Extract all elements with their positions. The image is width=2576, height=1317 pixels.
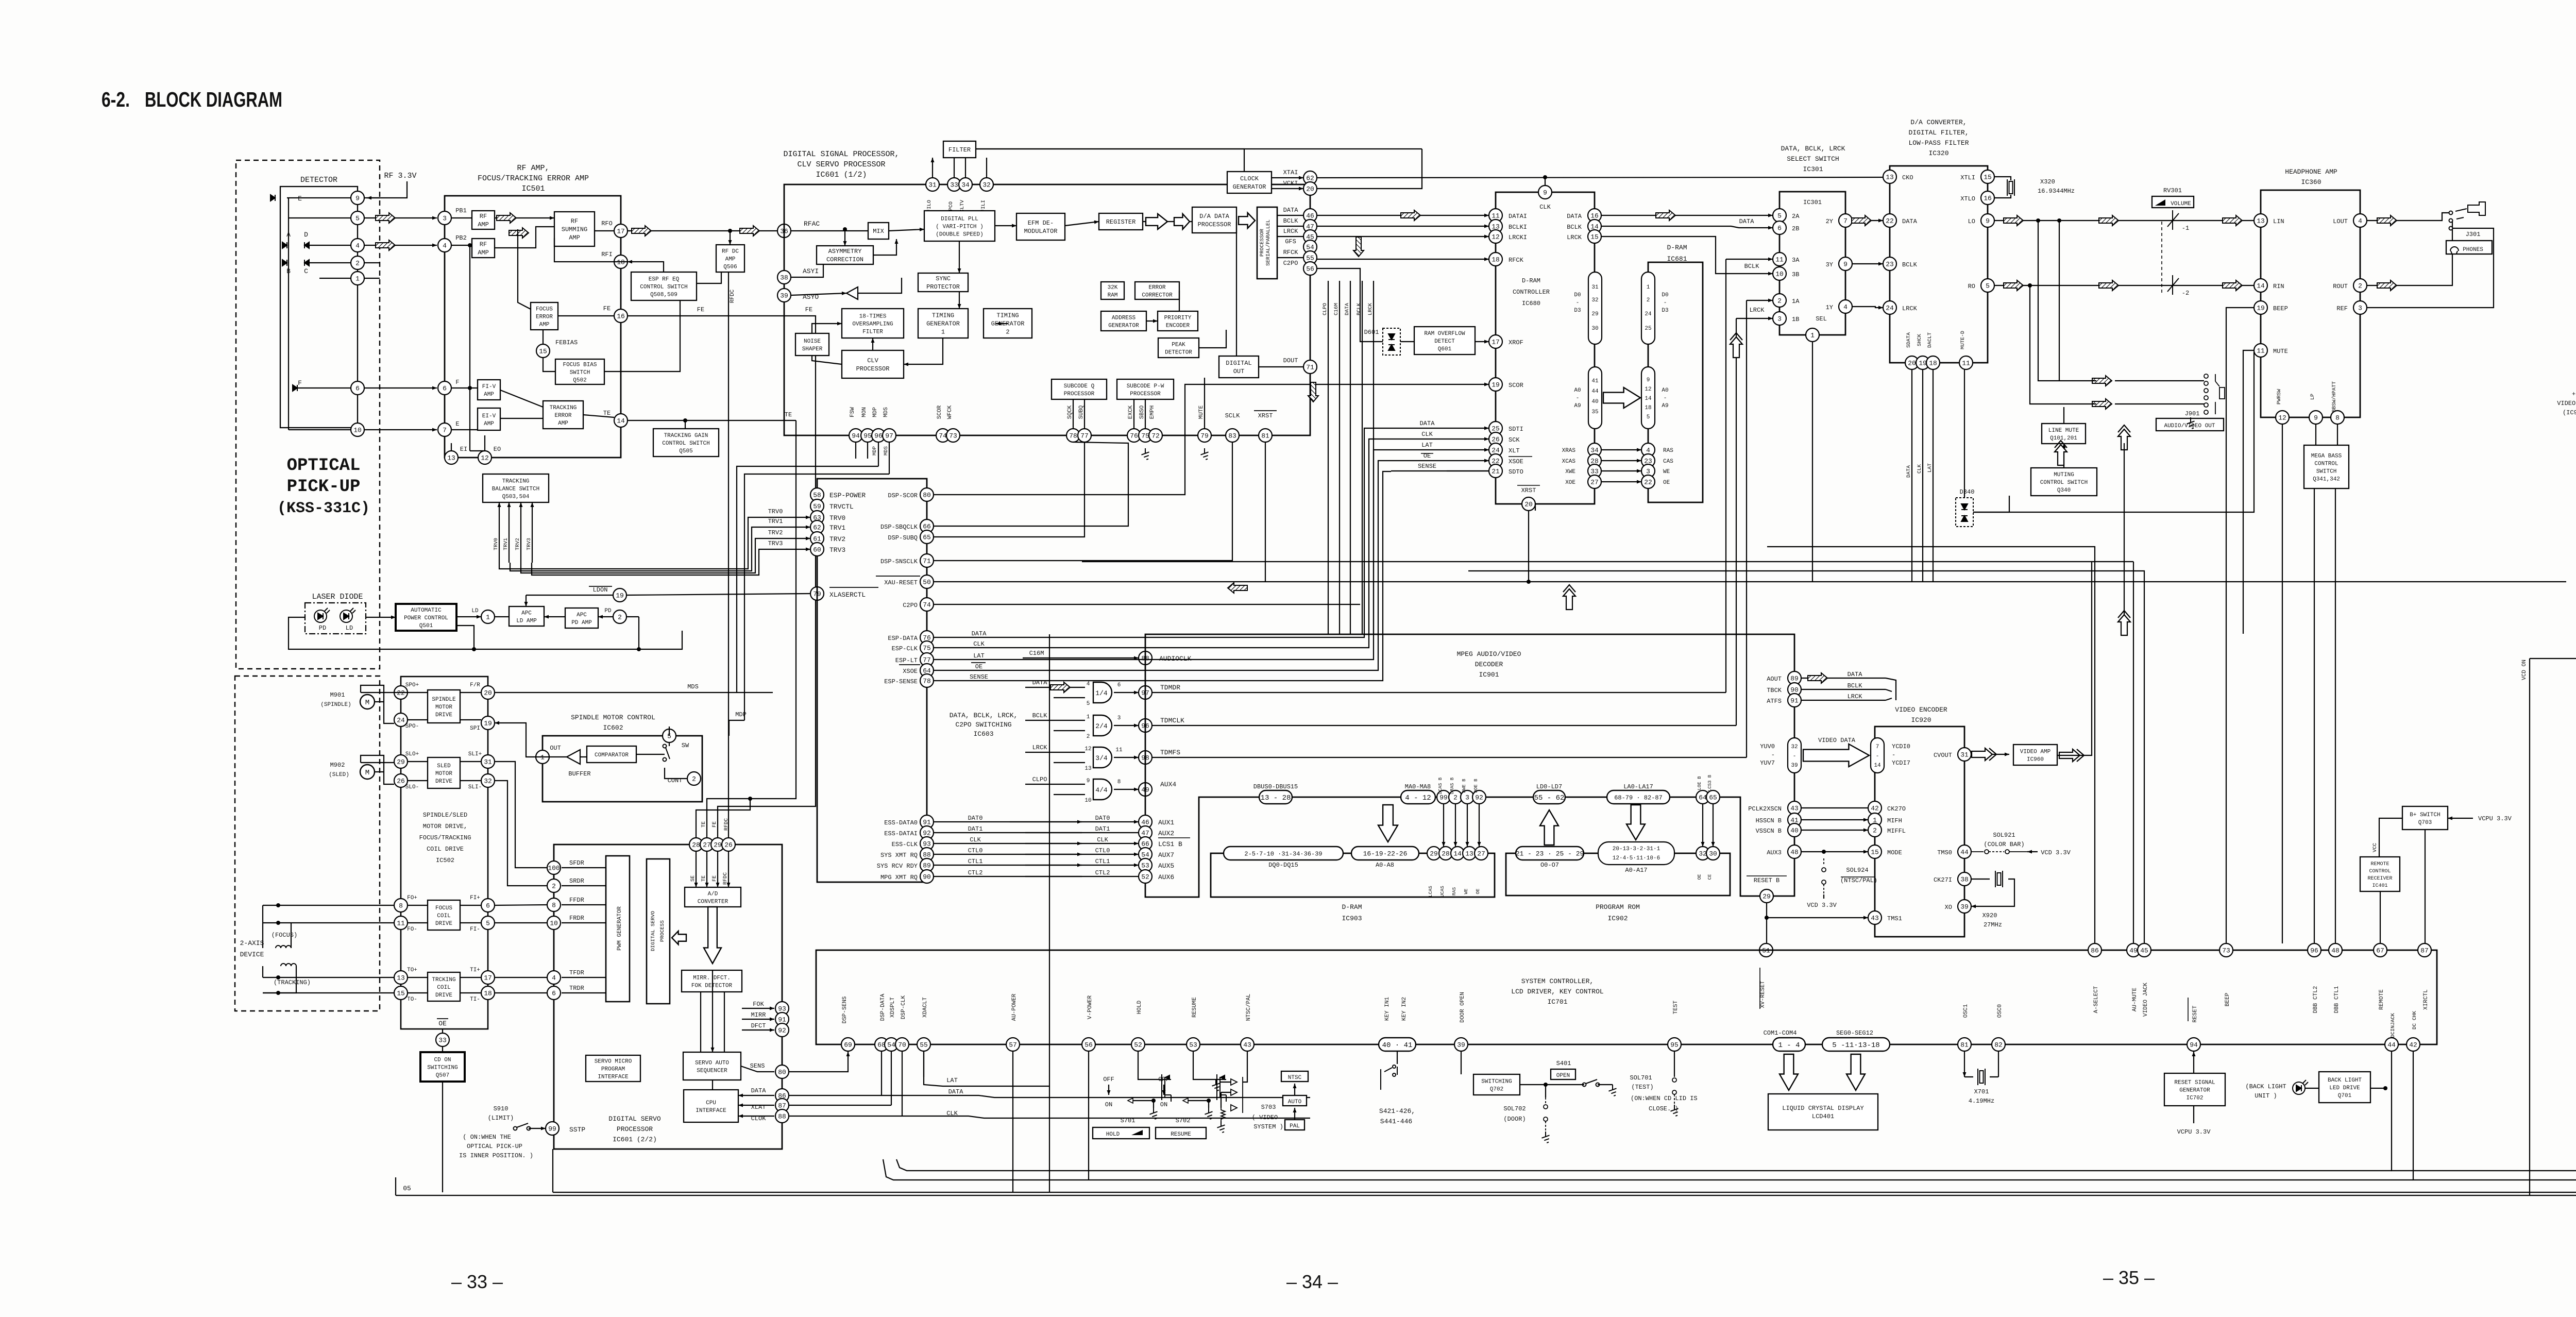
svg-text:8: 8 — [399, 902, 403, 910]
svg-text:TRVCTL: TRVCTL — [829, 503, 854, 511]
IC601(2/2) pin 100 — [547, 861, 561, 874]
ESP pin 64 — [920, 664, 934, 677]
wire SEL down — [1812, 342, 1813, 582]
svg-text:E: E — [455, 420, 459, 428]
IC601(2/2) top pin 29 — [711, 838, 724, 851]
svg-text:TRV2: TRV2 — [829, 535, 845, 543]
svg-text:SLI-: SLI- — [468, 784, 482, 790]
S701 transistor switch — [1162, 1074, 1171, 1102]
IC902 A pins double oval — [1598, 842, 1674, 865]
svg-text:FOK: FOK — [753, 1001, 764, 1008]
register box — [1099, 213, 1143, 230]
svg-text:TRV0: TRV0 — [768, 508, 783, 515]
block arrow to PWM — [672, 931, 686, 944]
svg-text:CK27I: CK27I — [1934, 876, 1952, 884]
CD arrow RF2 — [509, 228, 529, 238]
svg-text:MPG XMT RQ: MPG XMT RQ — [880, 874, 918, 881]
D/A data processor box — [1192, 207, 1236, 233]
IC701 pin 67 — [2374, 943, 2387, 957]
svg-text:74: 74 — [923, 601, 931, 609]
junction — [276, 921, 280, 925]
IC360 pin 11 — [2254, 344, 2267, 357]
2-axis device dashed enclosure — [235, 676, 380, 1011]
svg-text:2: 2 — [1873, 827, 1877, 835]
svg-text:SPINDLE: SPINDLE — [432, 697, 456, 703]
IC360 pin 12 — [2276, 411, 2289, 424]
svg-text:XOE: XOE — [1565, 480, 1575, 486]
svg-text:12·4·5·11·10·6: 12·4·5·11·10·6 — [1613, 855, 1660, 862]
svg-text:76: 76 — [1130, 432, 1138, 440]
svg-text:CTL1: CTL1 — [1095, 858, 1110, 865]
junction — [1822, 850, 1826, 854]
svg-text:TRV1: TRV1 — [829, 524, 845, 532]
svg-text:DATA: DATA — [1906, 465, 1912, 478]
svg-text:COIL: COIL — [437, 985, 450, 991]
IC901 pin 46 — [1139, 815, 1152, 829]
svg-text:12: 12 — [1645, 386, 1651, 393]
junction — [2057, 218, 2061, 223]
svg-text:(COLOR BAR): (COLOR BAR) — [1984, 841, 2024, 848]
svg-text:TO-: TO- — [407, 997, 417, 1003]
svg-text:TEST: TEST — [1673, 1000, 1679, 1014]
svg-text:PWRSW: PWRSW — [2277, 389, 2282, 404]
svg-text:82: 82 — [1994, 1041, 2003, 1049]
IC601(2/2) pin 92 — [775, 1023, 789, 1037]
wire serial bundle C16M — [1339, 281, 1340, 634]
svg-text:PCO: PCO — [948, 201, 954, 211]
svg-text:CTL2: CTL2 — [1095, 869, 1110, 876]
S701 ON triangle — [1128, 1098, 1133, 1103]
svg-text:AUX1: AUX1 — [1158, 819, 1174, 826]
IC920 pin 38 — [1958, 872, 1971, 886]
svg-text:Q508,509: Q508,509 — [650, 292, 677, 298]
svg-text:43: 43 — [1871, 915, 1879, 922]
FI-V amp box — [478, 380, 500, 400]
svg-text:16.9344MHz: 16.9344MHz — [2038, 188, 2075, 195]
ESP pin 58 — [810, 488, 824, 501]
svg-text:DATA: DATA — [1283, 207, 1299, 214]
svg-text:BALANCE SWITCH: BALANCE SWITCH — [492, 486, 539, 492]
svg-text:ROUT: ROUT — [2333, 283, 2348, 290]
wire C2PO to D601 — [1317, 268, 1383, 342]
wire gate in2 — [1054, 697, 1085, 698]
w — [1221, 1092, 1222, 1108]
IC601 pin 55 — [1303, 251, 1317, 264]
wire ESS CTL1 — [934, 865, 1082, 866]
svg-text:74: 74 — [939, 432, 947, 440]
svg-text:44: 44 — [1960, 849, 1969, 856]
IC901 pin 29 RESET B — [1760, 889, 1773, 903]
svg-text:39: 39 — [780, 292, 788, 300]
svg-text:RESET B: RESET B — [1754, 877, 1780, 884]
wire DBB CTL1 down — [2335, 488, 2336, 943]
wire CE down — [1713, 804, 1714, 847]
wire LRCK aout — [1802, 700, 1886, 701]
wire DATA in — [1025, 687, 1085, 688]
svg-text:RESET SIGNAL: RESET SIGNAL — [2174, 1079, 2215, 1086]
IC701 pin 51 XV-RESET — [1759, 943, 1773, 957]
svg-text:TMS0: TMS0 — [1937, 849, 1952, 856]
crystal X920 cap — [1995, 871, 2003, 887]
MIRR DFCT FOK detector box — [682, 970, 742, 992]
svg-text:MODE: MODE — [1887, 849, 1902, 856]
svg-text:CPU: CPU — [706, 1100, 716, 1106]
svg-text:VIDEO ENCODER: VIDEO ENCODER — [2557, 400, 2576, 407]
svg-text:9: 9 — [1647, 377, 1650, 383]
svg-text:18: 18 — [484, 990, 492, 998]
svg-text:MOTOR: MOTOR — [435, 771, 452, 777]
svg-text:14: 14 — [2257, 282, 2265, 290]
svg-text:20: 20 — [484, 689, 492, 697]
serial/parallel processor box — [1257, 207, 1277, 279]
svg-text:OE: OE — [1476, 889, 1481, 894]
svg-text:KEY IN2: KEY IN2 — [1401, 997, 1408, 1021]
svg-text:NTSC/PAL: NTSC/PAL — [1246, 994, 1252, 1021]
svg-text:38: 38 — [1960, 876, 1969, 884]
svg-text:Q506: Q506 — [723, 264, 737, 270]
wire summing to 17 — [595, 230, 614, 231]
wire bus c — [553, 1192, 2576, 1193]
wire filter left — [932, 158, 933, 178]
svg-text:AU-POWER: AU-POWER — [1011, 993, 1018, 1021]
w — [408, 780, 428, 781]
svg-text:YUV0: YUV0 — [1760, 743, 1775, 750]
IC360 pin 8 — [2331, 411, 2344, 424]
wire TRV2 to ESP — [521, 538, 810, 573]
svg-text:3/4: 3/4 — [1095, 754, 1108, 762]
IC701 pin 55 — [917, 1038, 930, 1051]
wire SRDR to sled — [495, 781, 547, 886]
IC601(2/2) pin 80 SENS — [775, 1065, 789, 1078]
block arrow servo micro to sequencer — [655, 1063, 656, 1064]
motor M902 sled — [360, 765, 375, 779]
svg-text:TI-: TI- — [470, 997, 480, 1003]
IC301 pin 4 — [1839, 300, 1852, 313]
svg-text:5: 5 — [1087, 701, 1090, 707]
wire serial bundle DATA — [1350, 281, 1351, 634]
junction — [276, 975, 280, 980]
w — [460, 905, 481, 906]
svg-text:MDS: MDS — [884, 446, 889, 455]
VIDEO arrow cvout — [1972, 748, 1996, 761]
svg-text:1/4: 1/4 — [1095, 689, 1108, 697]
wire CLK in — [1082, 843, 1139, 844]
wire XRST81 down — [1265, 442, 1266, 582]
detector pin 10 — [351, 423, 364, 436]
svg-text:24: 24 — [1492, 447, 1500, 454]
svg-text:32K: 32K — [1108, 284, 1118, 291]
IC901 pins LD — [1533, 790, 1565, 804]
svg-text:D3: D3 — [1574, 308, 1581, 314]
svg-text:2-5·7-10 ·31-34·36-39: 2-5·7-10 ·31-34·36-39 — [1244, 850, 1322, 857]
svg-text:IC401: IC401 — [2372, 883, 2387, 889]
svg-text:DAT0: DAT0 — [1095, 815, 1110, 822]
svg-text:A0: A0 — [1662, 387, 1668, 394]
svg-text:93: 93 — [778, 1005, 786, 1013]
svg-text:YCDI7: YCDI7 — [1892, 759, 1910, 767]
photodiode C — [304, 260, 309, 266]
svg-text:NOISE: NOISE — [804, 339, 821, 345]
svg-text:29: 29 — [1430, 850, 1438, 858]
block arrow VIDEO DATA — [1803, 744, 1869, 767]
svg-text:XAU-RESET: XAU-RESET — [884, 579, 918, 586]
svg-text:OE: OE — [1663, 480, 1670, 486]
IC701 pin 49 — [2127, 943, 2140, 957]
wire video vert — [2124, 443, 2125, 634]
IC680 pin 15 — [1588, 230, 1601, 243]
svg-text:OPEN: OPEN — [1556, 1073, 1570, 1079]
ESP pin 79 XLASERCTL — [810, 587, 824, 600]
svg-text:OPTICAL PICK-UP: OPTICAL PICK-UP — [467, 1143, 522, 1150]
svg-text:AUX6: AUX6 — [1158, 873, 1174, 881]
svg-text:XTLI: XTLI — [1960, 174, 1975, 181]
svg-text:CTL2: CTL2 — [968, 869, 983, 876]
IC680 pin 11 — [1489, 209, 1502, 222]
wire RFCK to IC680 — [1317, 259, 1489, 260]
ESP pin 77 — [920, 653, 934, 666]
svg-text:FE: FE — [697, 306, 704, 313]
svg-text:SOL702: SOL702 — [1503, 1105, 1526, 1112]
svg-text:A9: A9 — [1662, 403, 1668, 409]
wire bend b — [1082, 561, 2133, 562]
svg-text:19: 19 — [1919, 360, 1927, 367]
svg-text:OPTICAL: OPTICAL — [287, 456, 361, 476]
IC680 pin 21 — [1489, 464, 1502, 478]
svg-text:2Y: 2Y — [1826, 218, 1833, 225]
volume dashed link — [2161, 222, 2162, 293]
svg-text:E: E — [298, 195, 302, 202]
svg-text:RFO: RFO — [601, 220, 613, 227]
w — [1400, 341, 1414, 342]
w — [1886, 689, 1892, 691]
svg-text:64: 64 — [1699, 794, 1707, 802]
svg-text:PWM GENERATOR: PWM GENERATOR — [617, 906, 623, 951]
wire gate out — [1114, 757, 1139, 758]
svg-text:HSSCN B: HSSCN B — [1756, 817, 1782, 824]
svg-text:1: 1 — [355, 275, 360, 283]
CLV processor box — [842, 350, 904, 378]
wire XIRCTL up — [2425, 830, 2426, 943]
w — [1535, 504, 1536, 511]
w — [529, 1128, 546, 1129]
svg-text:XV-RESET: XV-RESET — [1760, 981, 1766, 1008]
svg-text:RFAC: RFAC — [804, 220, 820, 228]
wire DATA to 2A — [1601, 215, 1773, 216]
IC901 MPEG decoder outline — [1145, 634, 1794, 897]
svg-text:A0: A0 — [1574, 387, 1581, 394]
wire RF amp1 out — [495, 217, 554, 218]
IC601 pin 56 — [1303, 262, 1317, 275]
IC502 pin 15 — [394, 986, 408, 1000]
volume wedge glyph — [2155, 199, 2165, 206]
IC901 pin 48 — [1788, 845, 1801, 858]
wire SENS to 69 — [789, 1052, 848, 1072]
overline OE — [437, 1018, 448, 1019]
IC601 top pin 33 — [947, 178, 961, 191]
IC501 pin 7 — [438, 423, 451, 436]
svg-text:(DOOR): (DOOR) — [1503, 1116, 1526, 1123]
svg-text:52: 52 — [1141, 873, 1149, 881]
svg-text:BCLK: BCLK — [1744, 263, 1760, 270]
IC901 pin 98 — [1139, 751, 1152, 764]
tracking balance switch box — [483, 474, 549, 502]
wire SRDR — [562, 885, 606, 886]
svg-text:DATA: DATA — [948, 1088, 964, 1095]
svg-text:OE: OE — [438, 1020, 447, 1027]
wire VCD ON down — [2529, 659, 2530, 1195]
svg-text:13: 13 — [1084, 766, 1091, 772]
IC501 pin 17 — [614, 224, 628, 238]
w — [1163, 1085, 1164, 1095]
svg-text:CLK: CLK — [1421, 431, 1433, 438]
wire to pin 10 — [289, 429, 351, 430]
svg-text:SLED: SLED — [437, 763, 451, 769]
RAM overflow detect Q601 box — [1414, 327, 1475, 354]
svg-text:MDP: MDP — [735, 711, 747, 718]
svg-text:AU-MUTE: AU-MUTE — [2132, 988, 2138, 1012]
IC601(2/2) pin 99 SSTP — [546, 1122, 559, 1135]
svg-text:DIGITAL: DIGITAL — [1226, 360, 1251, 367]
w — [1971, 879, 1990, 880]
IC601 pin 54 — [1303, 240, 1317, 254]
svg-text:MIX: MIX — [873, 228, 884, 235]
wire DA down — [1236, 222, 1237, 356]
wire AUX3 to MODE — [1802, 851, 1868, 852]
wire RFDC down — [728, 851, 729, 887]
svg-text:SYSTEM ): SYSTEM ) — [1253, 1123, 1283, 1130]
IC301 pin 10 — [1773, 267, 1786, 280]
block arrow LA down — [1626, 805, 1645, 840]
svg-text:88: 88 — [778, 1113, 786, 1121]
svg-text:4: 4 — [2358, 217, 2362, 225]
OPEN label box — [1551, 1069, 1575, 1079]
wire DSP-SCOR to IC680 SCOR — [934, 384, 1489, 495]
svg-text:ADDRESS: ADDRESS — [1112, 315, 1136, 321]
w — [395, 1177, 396, 1195]
svg-text:SENSE: SENSE — [970, 673, 988, 681]
w — [1294, 1084, 1295, 1095]
svg-text:AUX4: AUX4 — [1160, 781, 1176, 788]
IC501 pin 16 — [614, 309, 628, 323]
crystal X701 — [1978, 1069, 1985, 1085]
svg-text:31: 31 — [1591, 284, 1599, 291]
svg-text:CLK: CLK — [973, 640, 985, 648]
svg-text:(KSS-331C): (KSS-331C) — [277, 500, 370, 517]
ground below pin 75 — [1141, 448, 1149, 460]
wire SHCK down — [1922, 369, 1923, 582]
wire to pin 1 — [319, 278, 351, 279]
IC502 pin 19 — [481, 716, 495, 730]
svg-text:1Y: 1Y — [1826, 304, 1833, 311]
svg-text:88: 88 — [923, 851, 931, 859]
svg-text:CD ON: CD ON — [434, 1057, 451, 1063]
svg-text:CTL1: CTL1 — [968, 858, 983, 865]
svg-text:4: 4 — [552, 974, 556, 982]
svg-text:IC601 (1/2): IC601 (1/2) — [816, 171, 867, 179]
svg-text:CTL0: CTL0 — [968, 847, 983, 854]
svg-text:15: 15 — [1590, 233, 1599, 241]
w — [1973, 352, 2254, 512]
wire DATA to IC680 — [1317, 215, 1489, 216]
wire XTLO — [1994, 195, 2011, 198]
IC701 pins SEG — [1822, 1038, 1890, 1051]
svg-text:AUX3: AUX3 — [1767, 849, 1782, 856]
svg-text:XRST: XRST — [1258, 412, 1273, 419]
svg-text:UNIT ): UNIT ) — [2255, 1092, 2277, 1100]
IC701 pin 73 — [2219, 943, 2233, 957]
IC901 pin 89 — [1788, 671, 1801, 685]
svg-text:DECODER: DECODER — [1475, 661, 1503, 668]
svg-text:50: 50 — [923, 579, 931, 586]
svg-text:-: - — [1664, 395, 1667, 401]
wire MDP left down — [737, 466, 878, 693]
IC502 pin 31 — [481, 755, 495, 768]
wire AU-POWER down — [1012, 1052, 1013, 1192]
w — [789, 1095, 882, 1096]
svg-text:PCLK2XSCN: PCLK2XSCN — [1748, 805, 1782, 813]
svg-text:X920: X920 — [1982, 912, 1997, 919]
w — [712, 970, 713, 992]
wire pin2 — [364, 262, 380, 263]
overline RESETB — [1747, 875, 1787, 876]
wire BEEP long down — [2226, 308, 2254, 943]
IC601 bottom pin 79 — [1198, 429, 1211, 442]
wire LRCK in — [1025, 752, 1085, 753]
svg-text:XLT: XLT — [1509, 447, 1520, 454]
w — [442, 1029, 443, 1033]
svg-text:SLO-: SLO- — [405, 784, 419, 790]
svg-text:SELECT SWITCH: SELECT SWITCH — [1787, 155, 1839, 163]
IC901 pins MA — [1401, 790, 1435, 804]
svg-text:RESUME: RESUME — [1192, 997, 1198, 1018]
svg-text:ESP-DATA: ESP-DATA — [888, 635, 918, 642]
wire peak det — [1199, 330, 1226, 348]
wire LO to LIN — [1994, 220, 2254, 221]
svg-text:39: 39 — [1457, 1041, 1465, 1049]
wire VCKI — [1317, 149, 1422, 189]
svg-text:29: 29 — [397, 758, 405, 766]
wire D340 — [1973, 496, 2009, 512]
svg-text:20: 20 — [1306, 185, 1314, 193]
svg-text:MUTING: MUTING — [2054, 472, 2074, 478]
block arrow SEG to LCD — [1846, 1054, 1865, 1090]
IC601(2/2) pin 4 — [547, 971, 561, 984]
address generator box — [1101, 311, 1146, 331]
IC601(1/2) DSP box — [784, 184, 1310, 435]
w — [2027, 851, 2038, 852]
svg-text:( VIDEO: ( VIDEO — [1252, 1114, 1278, 1121]
block arrow register to D/A — [1146, 214, 1167, 229]
svg-text:32: 32 — [1699, 850, 1707, 858]
w — [2063, 407, 2064, 424]
svg-text:IS INNER POSITION. ): IS INNER POSITION. ) — [459, 1152, 533, 1159]
svg-text:72: 72 — [1151, 432, 1160, 440]
RV301 volume box — [2152, 196, 2194, 208]
svg-text:30: 30 — [1591, 326, 1598, 332]
wire ESS DAT0 — [934, 821, 1082, 822]
IC901 pin 52 — [1139, 870, 1152, 883]
svg-text:LED DRIVE: LED DRIVE — [2329, 1085, 2360, 1091]
w — [408, 992, 428, 993]
AND gate 4/4 IC603 — [1093, 779, 1112, 800]
svg-text:CLPO: CLPO — [1323, 303, 1328, 315]
w — [1221, 1092, 1231, 1093]
svg-text:LAT: LAT — [946, 1077, 958, 1084]
svg-text:4: 4 — [1843, 303, 1848, 311]
svg-text:Q507: Q507 — [436, 1072, 449, 1078]
svg-text:PROCESS: PROCESS — [660, 920, 666, 942]
svg-text:54: 54 — [1141, 851, 1149, 859]
